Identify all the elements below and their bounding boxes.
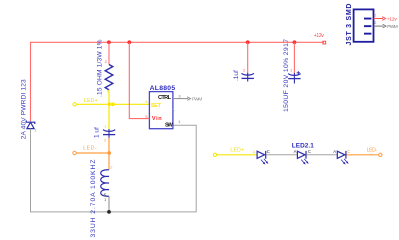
svg-text:1: 1: [35, 128, 38, 133]
pin 3 bar: [364, 33, 371, 35]
wire CTRL to PWM: [173, 98, 188, 100]
svg-text:1 uf: 1 uf: [94, 127, 101, 138]
node LED- terminal: [73, 151, 76, 154]
svg-text:SET: SET: [151, 103, 162, 109]
svg-text:2: 2: [104, 138, 107, 143]
svg-text:A: A: [253, 149, 256, 154]
svg-text:4: 4: [145, 99, 148, 104]
node junction R top: [107, 40, 111, 44]
svg-text:C: C: [347, 149, 350, 154]
pin 2 stub: [173, 109, 174, 111]
wire pin2 to PWM flag: [374, 25, 384, 27]
node junction bottom rail: [107, 210, 111, 214]
resistor R1: [108, 42, 110, 64]
svg-text:SW: SW: [165, 122, 174, 128]
capacitor C3 150UF polarized: [293, 42, 295, 73]
wire D3-D4: [307, 154, 337, 156]
svg-text:1: 1: [290, 67, 293, 72]
svg-text:.1uf: .1uf: [233, 70, 240, 81]
LED D2: [257, 151, 268, 164]
svg-text:LED-: LED-: [367, 148, 378, 154]
wire LED+ net: [76, 103, 149, 105]
svg-text:Vin: Vin: [152, 116, 162, 122]
svg-text:1: 1: [178, 119, 181, 124]
svg-text:2: 2: [105, 59, 108, 64]
wire top +12V bus: [31, 42, 325, 121]
wire Vin net: [129, 42, 149, 118]
svg-text:2: 2: [110, 165, 113, 170]
svg-text:2: 2: [374, 21, 376, 25]
node +12v terminal: [323, 41, 326, 44]
svg-text:33UH 2.70A 100KHZ: 33UH 2.70A 100KHZ: [90, 160, 97, 238]
inductor L1: [108, 153, 110, 170]
node LED+ terminal: [73, 103, 76, 106]
svg-text:PWM: PWM: [387, 24, 398, 30]
svg-text:.15 OHM 1/3W 1%: .15 OHM 1/3W 1%: [97, 39, 104, 97]
svg-text:150UF 20V 10% 2917: 150UF 20V 10% 2917: [283, 39, 290, 112]
svg-text:C: C: [308, 149, 311, 154]
wire LED string: LED+ lead: [213, 153, 216, 156]
node junction C2: [246, 40, 250, 44]
svg-text:C: C: [267, 149, 270, 154]
wire D2-D3: [266, 154, 297, 156]
wire left gray rail: [31, 125, 197, 212]
node junction Vin: [127, 40, 131, 44]
diode D1 schottky: [26, 120, 35, 128]
node junction SET: [107, 102, 111, 106]
svg-text:CTRL: CTRL: [158, 95, 172, 101]
svg-text:JST 3 SMD: JST 3 SMD: [346, 4, 353, 46]
pin 2 bar: [364, 25, 371, 27]
node LED- terminal right: [379, 153, 382, 156]
svg-text:LED+: LED+: [230, 147, 244, 153]
svg-text:LED+: LED+: [84, 98, 98, 104]
wire LED- lead: [347, 154, 379, 156]
svg-text:3: 3: [178, 94, 181, 99]
capacitor C1 1uf: [108, 104, 110, 130]
svg-text:+12v: +12v: [314, 33, 325, 39]
svg-text:LED-: LED-: [83, 146, 97, 152]
LED D4: [337, 151, 348, 164]
svg-text:1: 1: [104, 124, 107, 129]
node junction L1 top: [107, 151, 111, 155]
pin 1 bar: [364, 18, 371, 20]
wire LED- net: [76, 152, 109, 154]
node junction C3: [293, 40, 297, 44]
svg-text:2A 40V PWRDI 123: 2A 40V PWRDI 123: [20, 79, 27, 139]
wire pin1 to +12v flag: [374, 18, 383, 20]
capacitor C2 .1uf: [247, 42, 249, 73]
svg-text:2: 2: [243, 67, 246, 72]
svg-text:1: 1: [104, 197, 107, 202]
svg-text:+12v: +12v: [387, 17, 398, 23]
svg-text:PWM: PWM: [192, 97, 202, 103]
svg-text:A: A: [333, 149, 336, 154]
svg-text:1: 1: [374, 14, 376, 18]
